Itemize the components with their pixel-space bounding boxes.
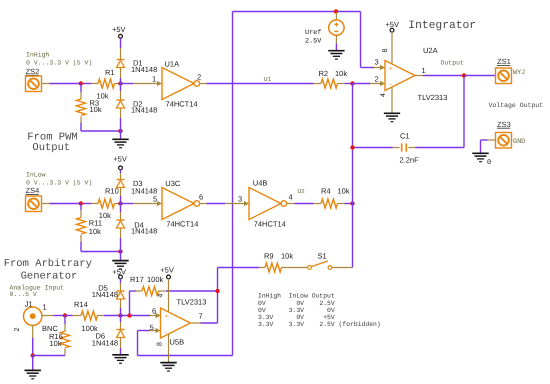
wire bottom row3 — [33, 355, 65, 357]
wire output to C1 vertical — [463, 76, 465, 148]
svg-text:8: 8 — [382, 48, 389, 52]
svg-text:WYJ: WYJ — [513, 69, 525, 77]
resistor R4 — [314, 203, 322, 205]
wire R16 bottom — [64, 349, 66, 356]
wire ZS2 to R1 — [42, 83, 50, 85]
wire Uref to U2A pin3 — [360, 12, 362, 68]
wire R9 to S1 — [282, 267, 308, 269]
svg-text:U3C: U3C — [165, 179, 181, 188]
svg-text:74HCT14: 74HCT14 — [254, 219, 286, 228]
svg-text:1: 1 — [43, 302, 47, 311]
diode D2 — [117, 100, 125, 108]
ground row1 — [112, 139, 128, 147]
wire R14 in — [65, 315, 73, 317]
svg-text:InHigh: InHigh — [26, 52, 50, 59]
node Uref junction — [334, 9, 338, 13]
supply +5V of U5B pin4 — [160, 265, 174, 279]
wire U5B output — [192, 322, 201, 324]
ground U2A pin4 — [384, 113, 400, 121]
ground row2 — [112, 261, 128, 269]
wire U5B pin5 — [138, 330, 151, 332]
wire J1 pin1 — [42, 315, 54, 317]
node J1 ground junction — [31, 353, 35, 357]
wire J1 pin2 — [32, 325, 34, 338]
capacitor C1 — [402, 143, 407, 151]
node C1 main junction — [350, 145, 354, 149]
resistor R3 — [77, 99, 86, 116]
ground D6 — [112, 355, 128, 363]
supply +5V of D5 — [112, 267, 126, 279]
svg-text:R9: R9 — [264, 252, 274, 261]
wire U5B output vertical — [217, 268, 219, 324]
wire node to U1A input — [122, 83, 133, 85]
svg-text:74HCT14: 74HCT14 — [166, 100, 198, 109]
resistor R9 — [265, 263, 282, 272]
svg-text:R14: R14 — [74, 300, 88, 309]
node D3 D4 junction — [118, 201, 122, 205]
diode D1 — [117, 60, 125, 68]
wire +5V to D3 — [120, 170, 122, 173]
svg-text:U5B: U5B — [170, 337, 185, 346]
resistor R1 — [98, 79, 115, 88]
svg-text:Output: Output — [441, 60, 465, 67]
node D5 D6 junction — [118, 313, 122, 317]
svg-text:R17: R17 — [130, 275, 144, 284]
wire R17 left branch — [129, 291, 131, 316]
svg-text:0V 0V 2.5V: 0V 0V 2.5V — [258, 300, 335, 307]
svg-text:C1: C1 — [400, 131, 410, 140]
wire C1 left — [393, 147, 400, 149]
wire row2 bottom — [81, 251, 121, 253]
svg-text:10k: 10k — [90, 105, 102, 114]
wire R11 to bottom — [80, 235, 82, 242]
wire junction to ground — [32, 356, 34, 370]
svg-text:Uref: Uref — [305, 29, 321, 37]
wire U4B output U2 net — [287, 203, 295, 205]
svg-text:10k: 10k — [335, 69, 347, 78]
svg-text:ZS3: ZS3 — [497, 120, 511, 129]
wire U1A output U1 net — [200, 83, 207, 85]
diode D3 — [117, 180, 125, 188]
svg-text:TLV2313: TLV2313 — [418, 93, 448, 102]
node R17 feedback junction — [215, 289, 219, 293]
svg-text:ZS1: ZS1 — [497, 57, 511, 66]
wire R9 row — [218, 267, 260, 269]
ground J1 — [25, 370, 41, 378]
svg-text:ZS4: ZS4 — [26, 186, 40, 195]
svg-text:1N4148: 1N4148 — [131, 106, 157, 115]
connector ZS3 — [496, 133, 512, 149]
node R2 main junction — [350, 81, 354, 85]
node R10 left junction — [79, 201, 83, 205]
svg-text:+5V: +5V — [112, 25, 126, 34]
svg-text:2.2nF: 2.2nF — [400, 155, 420, 164]
diode D5 — [117, 291, 125, 299]
svg-text:Integrator: Integrator — [408, 20, 476, 32]
svg-text:0 V...3.3 V (5 V): 0 V...3.3 V (5 V) — [26, 60, 92, 67]
svg-text:Output: Output — [32, 142, 70, 154]
wire R1 to D-clamp node — [115, 83, 121, 85]
svg-text:4: 4 — [380, 93, 387, 97]
wire R2 to U2A pin2 — [353, 83, 371, 85]
wire ZS3 to ground — [488, 139, 496, 141]
supply +5V of U2A pin8 — [385, 20, 399, 32]
svg-text:4: 4 — [158, 293, 165, 297]
connector ZS4 — [26, 196, 42, 212]
svg-text:Generator: Generator — [21, 271, 78, 283]
wire D3 to node — [120, 188, 122, 196]
svg-text:+5V: +5V — [113, 155, 127, 164]
svg-text:7: 7 — [199, 312, 203, 321]
svg-text:3.3V 3.3V 2.5V (forbidde: 3.3V 3.3V 2.5V (forbidden) — [258, 321, 381, 328]
svg-text:U2A: U2A — [423, 46, 438, 55]
svg-text:8: 8 — [157, 342, 164, 346]
svg-text:10k: 10k — [338, 187, 350, 196]
svg-text:0: 0 — [487, 159, 491, 167]
wire S1 to main bus — [332, 267, 353, 269]
supply +5V of D1 — [112, 25, 126, 38]
wire node to D4 — [120, 204, 122, 213]
svg-text:0V 3.3V 0V: 0V 3.3V 0V — [258, 307, 335, 314]
diode D6 — [117, 330, 125, 338]
wire pin4 to ground — [391, 87, 393, 113]
op-amp U5B — [161, 308, 191, 338]
svg-text:1: 1 — [422, 66, 426, 75]
wire D6 to ground — [120, 338, 122, 348]
svg-text:InHigh InLow Output: InHigh InLow Output — [258, 293, 335, 300]
svg-text:InLow: InLow — [26, 172, 46, 179]
svg-text:5: 5 — [153, 195, 157, 204]
svg-text:U1A: U1A — [165, 60, 180, 69]
node output junction — [462, 73, 466, 77]
svg-text:R2: R2 — [319, 69, 329, 78]
svg-text:2: 2 — [14, 327, 21, 331]
wire D5 to node — [120, 300, 122, 309]
svg-text:+5V: +5V — [160, 265, 174, 274]
svg-text:74HCT14: 74HCT14 — [166, 219, 198, 228]
svg-text:+: + — [165, 314, 169, 320]
svg-text:2.5V: 2.5V — [305, 38, 322, 46]
inverter U3C — [162, 188, 200, 220]
wire node to R17 node — [121, 315, 130, 317]
resistor R17 — [142, 287, 159, 296]
resistor R10 — [98, 199, 115, 208]
ground below Uref — [328, 51, 344, 59]
svg-text:U1: U1 — [264, 76, 272, 83]
wire U2A output — [415, 75, 423, 77]
op-amp U2A — [385, 61, 415, 91]
resistor R14 — [81, 311, 98, 320]
svg-text:TLV2313: TLV2313 — [177, 298, 207, 307]
svg-text:R1: R1 — [105, 68, 115, 77]
wire D1 to node — [120, 68, 122, 78]
svg-text:3.3V 0V +5V: 3.3V 0V +5V — [258, 314, 335, 321]
svg-text:10k: 10k — [89, 227, 101, 236]
connector ZS1 — [496, 68, 512, 84]
node R17 junction — [127, 313, 131, 317]
svg-text:100k: 100k — [147, 275, 164, 284]
diode D4 — [117, 220, 125, 228]
wire main vertical bus — [352, 84, 354, 268]
svg-text:2: 2 — [197, 73, 201, 82]
svg-text:U2: U2 — [298, 188, 306, 195]
wire R14 to D-clamp node — [98, 315, 105, 317]
wire +5V to pin8 — [391, 32, 393, 64]
node R4 main junction — [350, 201, 354, 205]
svg-text:+5V: +5V — [112, 267, 126, 276]
ground ZS3 — [472, 153, 488, 161]
svg-text:3: 3 — [375, 58, 379, 67]
wire Uref vertical bus — [232, 12, 234, 356]
svg-text:GND: GND — [513, 138, 525, 146]
node R1 left junction — [79, 81, 83, 85]
svg-text:1N4148: 1N4148 — [92, 338, 118, 347]
resistor R11 branch wire — [80, 204, 82, 211]
svg-text:3: 3 — [238, 195, 242, 204]
wire Uref top horizontal — [233, 11, 361, 13]
wire R16 top — [64, 316, 66, 325]
node D1 D2 junction — [118, 81, 122, 85]
wire R3 to bottom — [80, 117, 82, 124]
inverter U4B — [249, 188, 287, 220]
svg-text:+5V: +5V — [385, 20, 399, 29]
resistor R11 — [77, 218, 86, 235]
svg-text:Voltage Output: Voltage Output — [489, 102, 544, 109]
wire node to U3C input — [122, 203, 133, 205]
svg-text:S1: S1 — [318, 252, 327, 261]
svg-text:10k: 10k — [50, 339, 62, 348]
svg-text:6: 6 — [199, 193, 203, 202]
wire Uref bottom horizontal — [138, 355, 233, 357]
node row1 ground junction — [118, 129, 122, 133]
svg-text:1N4148: 1N4148 — [92, 290, 118, 299]
ground U5B — [160, 363, 176, 371]
svg-text:2: 2 — [375, 75, 379, 84]
wire U5B pin8 ground — [168, 334, 170, 362]
svg-text:ZS2: ZS2 — [26, 67, 40, 76]
wire +5V to D5 — [120, 279, 122, 283]
svg-text:0...5 V: 0...5 V — [10, 291, 37, 298]
wire +5V to D1 — [120, 38, 122, 48]
wire D4 to ground node — [120, 229, 122, 239]
resistor R16 — [61, 331, 70, 348]
svg-text:1N4148: 1N4148 — [131, 227, 157, 236]
svg-text:1N4148: 1N4148 — [131, 65, 157, 74]
wire node to D2 — [120, 84, 122, 92]
svg-text:U4B: U4B — [253, 178, 268, 187]
svg-text:From Arbitrary: From Arbitrary — [4, 258, 92, 270]
node row2 ground junction — [118, 249, 122, 253]
connector ZS2 — [26, 76, 42, 92]
wire +5V to pin4 — [168, 279, 170, 312]
wire ZS4 to R10 — [42, 203, 50, 205]
switch S1 — [308, 261, 332, 269]
svg-text:1: 1 — [152, 75, 156, 84]
svg-text:10k: 10k — [281, 252, 293, 261]
inverter U1A — [162, 68, 200, 100]
svg-text:R4: R4 — [321, 187, 331, 196]
svg-text:4: 4 — [289, 193, 293, 202]
resistor R2 — [314, 83, 322, 85]
supply +5V of D3 — [113, 155, 127, 170]
wire U3C output to U4B — [200, 203, 207, 205]
connector J1 BNC — [24, 307, 42, 325]
wire node to D6 — [120, 316, 122, 323]
wire C1 right — [416, 147, 465, 149]
svg-text:6: 6 — [152, 307, 156, 316]
node J1 R16 junction — [63, 313, 67, 317]
svg-text:+: + — [389, 66, 393, 72]
resistor R3 branch wire — [80, 84, 82, 93]
wire node to U5B pin6 — [132, 315, 151, 317]
voltage source Uref — [329, 12, 344, 50]
wire D2 to ground node — [120, 109, 122, 119]
wire R10 to D-clamp node — [115, 203, 121, 205]
wire Uref to U5B pin5 — [137, 331, 139, 356]
wire row1 bottom — [81, 130, 121, 132]
wire R17 right — [159, 290, 167, 292]
